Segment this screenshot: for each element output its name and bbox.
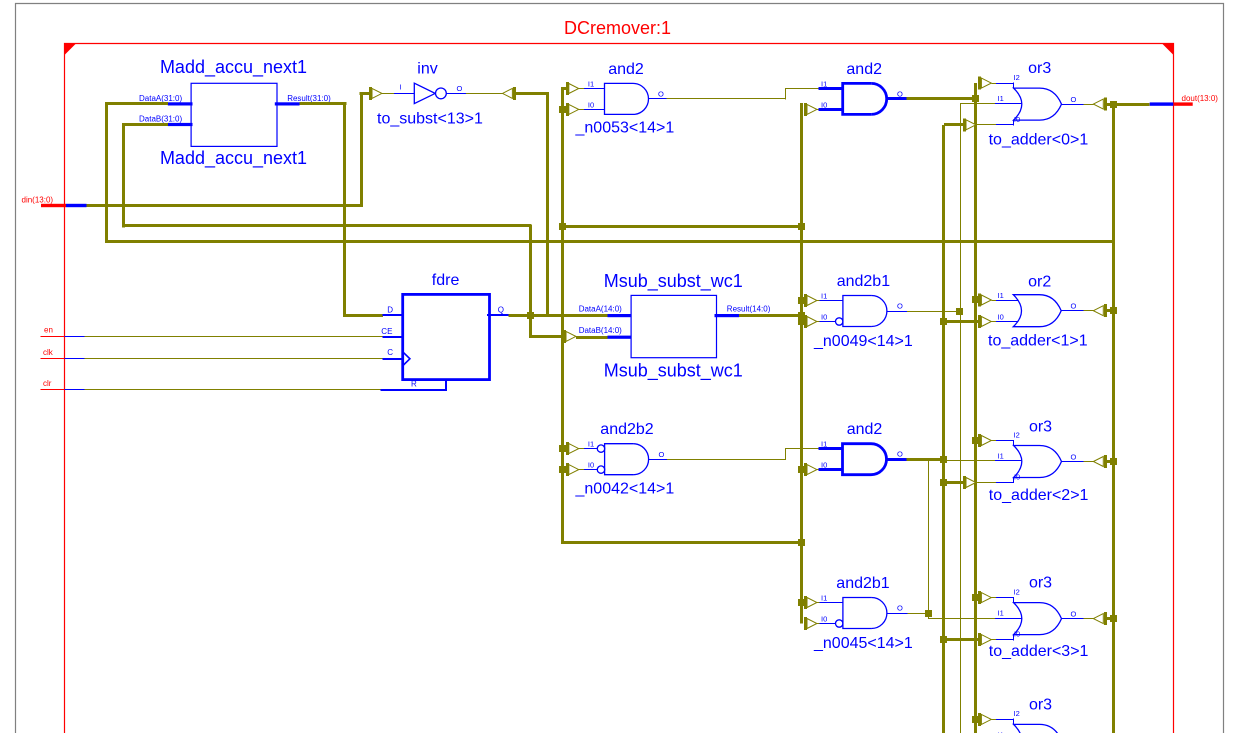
svg-text:_n0042<14>1: _n0042<14>1: [575, 481, 675, 498]
pin O label A2: [897, 90, 903, 99]
register U3 fdre body: [403, 294, 490, 379]
pin O label A3: [897, 302, 903, 311]
wire G3 I0 feed from bus944: [944, 481, 965, 484]
terminal arrow G1 I0: [965, 118, 976, 131]
wire Result31 vertical x345: [343, 102, 346, 317]
inverter U2 label inv: [417, 61, 437, 78]
bus x1114 vertical (dout): [1112, 104, 1115, 733]
gate A6 bubble I0: [836, 620, 843, 627]
gate A6 and2b1 label: [836, 575, 889, 592]
wire A2 O blue: [887, 97, 906, 100]
svg-text:O: O: [897, 302, 903, 311]
wire A5 I1 blue: [819, 447, 844, 450]
wire G3 I1 feed from bus928: [928, 460, 996, 462]
node junction bus562 branch y226: [559, 223, 566, 230]
svg-text:I0: I0: [998, 312, 1004, 321]
block U1 Madd_accu_next1 title: [160, 57, 307, 78]
wire inv I blue: [394, 93, 414, 95]
node junction bus1114 G3: [1110, 458, 1117, 465]
gate G2 or2 body: [1013, 295, 1061, 327]
pin I0 label G1: [1014, 115, 1020, 124]
pin CE stub: [382, 336, 403, 338]
node junction bus1114 G4: [1110, 615, 1117, 622]
block U4 Msub_subst_wc1 body: [631, 295, 716, 357]
svg-text:I1: I1: [588, 440, 594, 449]
gate A4 bubble I0: [597, 466, 604, 473]
terminal arrow G2 output: [1093, 304, 1105, 317]
pin I1 label G1: [998, 94, 1004, 103]
svg-text:O: O: [658, 90, 664, 99]
pin O label G3: [1071, 452, 1077, 461]
wire A6 I0 blue: [820, 623, 836, 625]
wire inv O blue: [446, 93, 466, 95]
svg-text:dout(13:0): dout(13:0): [1182, 94, 1219, 103]
node junction bus562 I0 row1: [559, 106, 566, 113]
wire net dout feedback long horizontal y241: [105, 240, 1113, 243]
pin I1 label A3: [821, 292, 827, 301]
svg-text:O: O: [1071, 95, 1077, 104]
gate G4 net label to_adder<3>1: [989, 643, 1089, 660]
pin I0 label A5: [821, 461, 827, 470]
wire Result31 horizontal: [300, 102, 347, 105]
node junction bus976 G4 I2: [972, 594, 979, 601]
port clk label: [43, 348, 54, 357]
gate G1 or3 body: [1014, 88, 1062, 120]
gate G5 or3 body: [1014, 724, 1062, 733]
wire A1 I1 olive stub: [579, 88, 585, 90]
terminal arrow A3 I1: [806, 294, 817, 307]
svg-text:fdre: fdre: [432, 272, 460, 289]
pin Result(14:0) label: [727, 304, 771, 313]
pin Result(31:0) stub: [275, 102, 300, 105]
wire G1 output olive: [1084, 104, 1094, 106]
pin C stub: [382, 358, 403, 360]
svg-text:I1: I1: [998, 452, 1004, 461]
wire A5 output to bus944: [907, 458, 944, 461]
svg-text:and2: and2: [846, 61, 882, 78]
pin DataB(14:0) label: [579, 326, 622, 335]
gate A2 and2 label: [846, 61, 882, 78]
wire A1 output jog vertical: [785, 89, 787, 100]
wire A5 I0 blue: [819, 468, 844, 471]
module corner mark top-right: [1162, 44, 1174, 56]
port din(13:0) pin: [41, 204, 87, 207]
gate A4 and2b2 body: [605, 444, 649, 475]
gate G1 net label to_adder<0>1: [989, 131, 1089, 148]
pin I1 label A4: [588, 440, 594, 449]
wire A4 O blue: [649, 459, 668, 461]
wire G4 output olive: [1084, 618, 1094, 620]
svg-text:O: O: [659, 450, 665, 459]
svg-text:_n0053<14>1: _n0053<14>1: [575, 120, 675, 137]
pin O label G4: [1071, 610, 1077, 619]
svg-text:O: O: [457, 84, 463, 93]
svg-text:to_adder<1>1: to_adder<1>1: [988, 332, 1088, 349]
terminal arrow A2 I0: [806, 103, 817, 116]
pin I2 label G4: [1014, 587, 1020, 596]
pin D label: [387, 306, 393, 315]
svg-text:O: O: [1071, 610, 1077, 619]
svg-text:I1: I1: [998, 94, 1004, 103]
svg-text:_n0045<14>1: _n0045<14>1: [813, 635, 913, 652]
wire G5 I2 olive stub: [991, 719, 996, 721]
wire G1 I0 feed from bus944: [944, 123, 965, 126]
wire A4 I0 olive stub: [579, 469, 585, 471]
wire en to fdre CE: [85, 336, 383, 338]
wire A4 I1 olive stub: [579, 448, 585, 450]
title DCremover:1: [564, 18, 671, 38]
gate G3 or3 label: [1029, 419, 1052, 436]
node junction bus976 G2 I1: [972, 296, 979, 303]
wire DataB vertical x531: [529, 224, 532, 338]
pin R stub: [381, 380, 447, 390]
gate A2 and2 body: [843, 83, 887, 114]
pin I2 label G3: [1014, 430, 1020, 439]
wire din to inv input: [360, 92, 371, 95]
terminal arrow Msub DataB: [565, 330, 576, 343]
pin I1 label A6: [821, 594, 827, 603]
block U1 instance label: [160, 148, 307, 169]
svg-text:DataA(14:0): DataA(14:0): [579, 304, 622, 313]
gate A1 net label _n0053<14>1: [575, 120, 675, 137]
wire DataB horizontal: [122, 123, 167, 126]
wire G4 I1 blue: [995, 618, 1021, 620]
wire branch y226 bus562 to bus802: [563, 225, 802, 228]
wire G2 I1 olive stub: [991, 300, 996, 302]
wire A3 I0 blue: [820, 321, 836, 323]
svg-text:I0: I0: [821, 614, 827, 623]
pin I0 label A1: [588, 100, 594, 109]
svg-text:Result(14:0): Result(14:0): [727, 304, 771, 313]
pin DataB(31:0) stub: [168, 123, 193, 126]
wire G2 I1 blue: [996, 300, 1019, 302]
svg-text:_n0049<14>1: _n0049<14>1: [813, 333, 913, 350]
gate A1 and2 body: [605, 83, 649, 114]
pin DataA(31:0) label: [139, 94, 182, 103]
inverter U2 bubble: [436, 88, 447, 99]
wire clk to fdre C: [85, 358, 383, 360]
wire DataB vertical x124: [122, 123, 125, 227]
wire A6 O blue: [887, 613, 908, 615]
svg-text:or3: or3: [1029, 575, 1052, 592]
wire G4 I0 blue: [996, 634, 1014, 640]
wire G5 I2 blue: [996, 719, 1014, 725]
pin I0 label A2: [821, 100, 827, 109]
wire G3 output olive: [1084, 461, 1094, 463]
wire G3 output to bus1114: [1105, 460, 1113, 463]
svg-text:I2: I2: [1014, 73, 1020, 82]
inverter U2 net label to_subst<13>1: [377, 111, 483, 128]
bus x960 vertical: [960, 103, 962, 733]
node junction bus562 A4 I0: [559, 466, 566, 473]
svg-text:to_subst<13>1: to_subst<13>1: [377, 111, 483, 128]
wire DataB horizontal y226: [124, 224, 531, 227]
terminal arrow inv input: [371, 87, 382, 100]
wire G1 I0 olive stub: [976, 124, 997, 126]
wire G2 I0 blue: [996, 321, 1018, 323]
port en label: [44, 326, 53, 335]
wire A3 I0 olive stub: [817, 321, 820, 323]
pin I2 label G1: [1014, 73, 1020, 82]
pin I0 label A4: [588, 461, 594, 470]
wire G1 output to bus1114: [1105, 103, 1113, 106]
node junction Q bus531: [527, 312, 534, 319]
pin Q stub: [487, 314, 509, 316]
svg-text:or3: or3: [1029, 419, 1052, 436]
svg-text:O: O: [1071, 302, 1077, 311]
svg-text:and2: and2: [847, 421, 883, 438]
wire A3 O blue: [887, 311, 907, 313]
wire A6 I1 olive stub: [817, 602, 820, 604]
terminal arrow A4 I1: [568, 442, 579, 455]
port clr label: [43, 379, 52, 388]
wire G1 I2 blue: [996, 82, 1014, 88]
terminal arrow G3 I0: [965, 476, 976, 489]
wire A3 I1 olive stub: [817, 300, 820, 302]
pin CE label: [381, 327, 392, 336]
wire A4 output jog vertical: [785, 449, 787, 460]
wire inv input stub: [382, 93, 394, 95]
wire Q to Msub DataA: [508, 314, 608, 317]
wire A6 output olive: [908, 613, 929, 615]
pin I1 label G3: [998, 452, 1004, 461]
bus x944 vertical: [942, 125, 945, 733]
svg-text:to_adder<2>1: to_adder<2>1: [989, 487, 1089, 504]
wire G1 I2 olive stub: [991, 83, 996, 85]
gate G4 or3 body: [1014, 603, 1062, 635]
wire G3 I0 olive stub: [976, 482, 997, 484]
wire A1 I1 blue: [584, 88, 605, 90]
svg-text:R: R: [411, 379, 417, 388]
gate G4 or3 label: [1029, 575, 1052, 592]
pin R label: [411, 379, 417, 388]
pin I1 label A5: [821, 440, 827, 449]
pin I2 label G5: [1014, 709, 1020, 718]
block U4 instance label: [604, 361, 743, 382]
wire A6 I1 blue: [820, 602, 844, 604]
wire G4 I0 olive stub: [991, 639, 996, 641]
terminal arrow G4 I0: [980, 633, 992, 646]
pin Q label: [498, 306, 504, 315]
node junction bus802 A3 I0: [798, 318, 805, 325]
wire Msub Result to bus802: [739, 314, 802, 317]
wire G4 I2 blue: [996, 597, 1014, 603]
wire DataA feedback horizontal: [105, 102, 168, 105]
svg-text:clk: clk: [43, 348, 54, 357]
register U3 fdre label: [432, 272, 460, 289]
gate G2 or2 label: [1028, 273, 1051, 290]
wire G1 I1 feed from bus960: [960, 103, 996, 105]
gate G1 or3 label: [1028, 60, 1051, 77]
wire A1 O blue: [648, 98, 666, 100]
svg-text:I0: I0: [588, 461, 594, 470]
port en pin: [41, 336, 85, 338]
pin DataB(31:0) label: [139, 115, 182, 124]
inverter U2 triangle: [414, 83, 435, 103]
node junction bus960 A3 output: [956, 308, 963, 315]
node junction bus802 branch y226: [798, 223, 805, 230]
wire A1 output jog to A2 I1: [785, 88, 819, 90]
pin Result(14:0) stub: [715, 314, 740, 317]
wire A5 I0 olive stub: [817, 469, 820, 471]
pin O label A5: [897, 450, 903, 459]
node junction bus1114 G1: [1110, 101, 1117, 108]
svg-text:Madd_accu_next1: Madd_accu_next1: [160, 148, 307, 169]
wire G1 I0 blue: [996, 120, 1014, 126]
svg-text:or2: or2: [1028, 273, 1051, 290]
pin O label inv: [457, 84, 463, 93]
svg-text:DCremover:1: DCremover:1: [564, 18, 671, 38]
svg-text:Msub_subst_wc1: Msub_subst_wc1: [604, 271, 743, 292]
gate A3 net label _n0049<14>1: [813, 333, 913, 350]
pin DataA(31:0) stub: [168, 102, 193, 105]
terminal arrow A1 I0: [568, 103, 579, 116]
svg-text:and2b1: and2b1: [836, 575, 889, 592]
pin I1 label A2: [821, 80, 827, 89]
pin I1 label G4: [998, 609, 1004, 618]
terminal arrow A3 I0: [806, 315, 817, 328]
wire inv output to bus x547: [514, 92, 548, 95]
node junction bus976 G3 I2: [972, 437, 979, 444]
wire DataA feedback vertical x107: [105, 102, 108, 242]
pin Result(31:0) label: [287, 94, 331, 103]
bus x802 vertical: [800, 103, 803, 624]
wire bottom U bus562 to bus802 y542: [563, 541, 802, 544]
port dout(13:0) label: [1182, 94, 1219, 103]
wire to Msub DataB horizontal: [529, 335, 565, 338]
pin I0 label G4: [1014, 630, 1020, 639]
wire G3 I0 blue: [996, 477, 1014, 483]
pin I0 label G3: [1014, 472, 1020, 481]
svg-text:I1: I1: [998, 609, 1004, 618]
terminal arrow A1 I1: [568, 82, 579, 95]
pin I1 label A1: [588, 80, 594, 89]
svg-text:din(13:0): din(13:0): [22, 196, 54, 205]
wire A2 I0 blue: [819, 108, 844, 111]
wire G2 I0 olive stub: [991, 321, 996, 323]
gate G5 or3 label: [1029, 696, 1052, 713]
terminal arrow G3 I2: [980, 434, 992, 447]
wire A4 output jog to A5 I1: [785, 448, 819, 450]
svg-text:I2: I2: [1014, 709, 1020, 718]
terminal arrow G2 I1: [980, 294, 992, 307]
wire G2 output olive: [1084, 310, 1094, 312]
node junction bus944 A5 output: [940, 456, 947, 463]
wire A2 output to bus976: [906, 97, 976, 100]
node junction bus802 A3 I1: [798, 297, 805, 304]
port clr pin: [41, 389, 85, 391]
wire A2 I1 blue: [819, 87, 844, 90]
terminal arrow G5 I2: [980, 713, 992, 726]
svg-text:I2: I2: [1014, 430, 1020, 439]
pin DataA(14:0) label: [579, 304, 622, 313]
wire Msub DataB olive: [576, 336, 608, 339]
svg-text:and2b1: and2b1: [837, 273, 890, 290]
pin C label: [387, 348, 393, 357]
port din(13:0) label: [22, 196, 54, 205]
svg-text:I1: I1: [821, 594, 827, 603]
port clk pin: [41, 358, 85, 360]
terminal arrow A6 I0: [806, 617, 817, 630]
module corner mark top-left: [65, 44, 77, 56]
wire G2 O blue: [1061, 310, 1083, 312]
svg-text:DataB(31:0): DataB(31:0): [139, 115, 182, 124]
wire G3 I2 blue: [996, 440, 1014, 446]
svg-text:or3: or3: [1028, 60, 1051, 77]
wire din horizontal: [87, 204, 363, 207]
pin I1 label G5: [998, 731, 1004, 733]
wire G3 I1 blue: [995, 460, 1021, 462]
wire A6 I0 olive stub: [817, 623, 820, 625]
terminal arrow G4 output: [1093, 612, 1105, 625]
svg-text:I0: I0: [588, 100, 594, 109]
node junction bus562 A4 I1: [559, 445, 566, 452]
svg-text:I1: I1: [588, 80, 594, 89]
wire G2 I0 feed: [944, 320, 981, 323]
bus Q vertical x562: [561, 87, 564, 544]
svg-text:Madd_accu_next1: Madd_accu_next1: [160, 57, 307, 78]
gate A1 and2 label: [608, 61, 644, 78]
wire G1 I1 blue: [995, 103, 1021, 105]
pin I label: [400, 83, 402, 92]
svg-text:I1: I1: [821, 292, 827, 301]
terminal arrow inv output: [503, 87, 515, 100]
terminal arrow G2 I0: [980, 315, 992, 328]
svg-text:O: O: [897, 450, 903, 459]
svg-text:Msub_subst_wc1: Msub_subst_wc1: [604, 361, 743, 382]
svg-text:or3: or3: [1029, 696, 1052, 713]
node junction bus944 G4 I0: [940, 636, 947, 643]
bus Q top corner to I1 arrow: [563, 87, 568, 90]
port dout(13:0) pin: [1150, 102, 1193, 105]
wire G3 O blue: [1062, 461, 1084, 463]
pin C clock triangle: [404, 353, 410, 365]
svg-text:I1: I1: [998, 291, 1004, 300]
wire Result31 to fdre D: [343, 314, 383, 317]
bus x976 vertical: [974, 83, 977, 733]
wire A4 I1 blue: [584, 448, 598, 450]
wire G1 O blue: [1062, 104, 1084, 106]
gate G2 net label to_adder<1>1: [988, 332, 1088, 349]
svg-text:I: I: [400, 83, 402, 92]
node junction bus802 Result: [798, 312, 805, 319]
pin DataA(14:0) stub: [608, 314, 632, 317]
pin O label G1: [1071, 95, 1077, 104]
svg-text:I2: I2: [1014, 587, 1020, 596]
svg-text:Q: Q: [498, 306, 504, 315]
wire A4 output olive: [667, 459, 785, 461]
terminal arrow G1 output: [1093, 98, 1105, 111]
gate A4 and2b2 label: [600, 421, 653, 438]
gate A3 and2b1 body: [843, 296, 887, 327]
svg-text:O: O: [897, 604, 903, 613]
pin I0 label G2: [998, 312, 1004, 321]
pin I0 label A3: [821, 312, 827, 321]
svg-text:C: C: [387, 348, 393, 357]
gate A6 net label _n0045<14>1: [813, 635, 913, 652]
svg-text:inv: inv: [417, 61, 437, 78]
wire A1 I0 blue: [584, 109, 605, 111]
svg-text:and2b2: and2b2: [600, 421, 653, 438]
svg-text:clr: clr: [43, 379, 52, 388]
node junction bus802 A5 I0: [798, 466, 805, 473]
gate A5 and2 label: [847, 421, 883, 438]
terminal arrow A6 I1: [806, 596, 817, 609]
block U4 Msub_subst_wc1 title: [604, 271, 743, 292]
wire A2 I0 olive stub: [817, 109, 820, 111]
pin I1 label G2: [998, 291, 1004, 300]
svg-text:I0: I0: [821, 312, 827, 321]
